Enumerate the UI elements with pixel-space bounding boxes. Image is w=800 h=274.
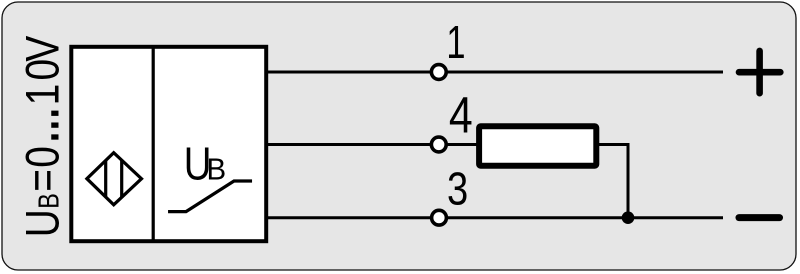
wire pin3 box to terminal: [266, 216, 430, 219]
analog ramp symbol: [170, 181, 251, 212]
wire pin4 box to terminal: [266, 143, 430, 146]
wire pin1 box to terminal: [266, 71, 430, 74]
pin number 1: [446, 16, 465, 68]
wire pin1 terminal to plus: [448, 71, 724, 74]
junction node: [622, 211, 635, 224]
terminal circle 3: [432, 210, 447, 225]
pin number 4: [449, 86, 473, 143]
wire load to junction (right stub + vertical drop): [596, 145, 628, 218]
svg-text:B: B: [207, 153, 227, 187]
terminal circle 1: [431, 65, 446, 80]
divider line: [152, 47, 155, 242]
svg-text:1: 1: [446, 16, 465, 68]
label UB=0...10V (supply voltage, rotated): [0, 34, 74, 237]
svg-text:3: 3: [447, 164, 468, 215]
label UB (analog output): [184, 138, 212, 190]
wire pin3 terminal to minus: [448, 216, 723, 219]
terminal circle 4: [431, 137, 446, 152]
minus terminal: [739, 214, 780, 221]
plus terminal: [739, 51, 780, 93]
proximity sensor diamond symbol: [87, 153, 142, 205]
load resistor RL: [479, 126, 596, 165]
sensor box U1: [71, 47, 266, 241]
wire terminal 4 to load: [448, 143, 481, 146]
svg-text:4: 4: [449, 86, 473, 143]
pin number 3: [447, 164, 468, 215]
